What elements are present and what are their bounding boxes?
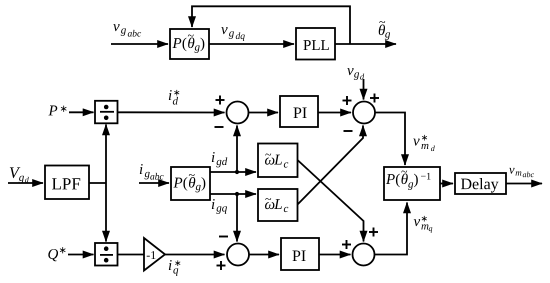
svg-text:q: q: [173, 264, 179, 276]
svg-text:): ): [413, 172, 418, 188]
svg-text:PI: PI: [292, 248, 306, 265]
svg-text:L: L: [273, 197, 282, 213]
svg-text:g: g: [121, 24, 127, 36]
svg-text:v: v: [221, 22, 228, 38]
svg-text:abc: abc: [522, 170, 534, 179]
svg-text:gd: gd: [216, 156, 228, 168]
svg-text:Q: Q: [47, 247, 58, 263]
svg-text:gq: gq: [216, 202, 228, 214]
svg-text:): ): [200, 36, 205, 52]
svg-text:(: (: [395, 172, 400, 188]
svg-text:): ): [201, 175, 206, 191]
svg-text:d: d: [360, 72, 365, 82]
svg-text:(: (: [182, 36, 187, 52]
svg-text:v: v: [413, 134, 420, 150]
svg-text:m: m: [515, 168, 522, 178]
svg-text:m: m: [421, 140, 429, 152]
svg-text:i: i: [139, 162, 143, 178]
svg-text:-1: -1: [146, 248, 156, 262]
svg-text:g: g: [385, 29, 391, 41]
svg-text:c: c: [283, 159, 288, 171]
svg-text:abc: abc: [128, 29, 143, 39]
svg-text:P: P: [172, 175, 182, 191]
svg-text:∗: ∗: [60, 104, 68, 115]
svg-text:i: i: [211, 197, 215, 213]
svg-text:P: P: [172, 36, 182, 52]
svg-text:dq: dq: [236, 32, 246, 42]
svg-text:Delay: Delay: [460, 176, 498, 193]
svg-text:P: P: [48, 103, 58, 119]
svg-text:PLL: PLL: [303, 38, 330, 54]
svg-text:q: q: [428, 224, 432, 233]
svg-text:LPF: LPF: [51, 174, 80, 193]
svg-text:d: d: [431, 144, 436, 153]
svg-text:v: v: [413, 214, 420, 230]
svg-text:g: g: [229, 27, 235, 39]
svg-text:−1: −1: [420, 172, 431, 183]
svg-text:∗: ∗: [58, 245, 66, 256]
svg-text:v: v: [113, 19, 120, 35]
svg-text:v: v: [509, 163, 515, 177]
svg-text:abc: abc: [150, 172, 165, 182]
svg-text:d: d: [173, 95, 179, 107]
svg-text:L: L: [273, 152, 282, 168]
svg-text:c: c: [283, 203, 288, 215]
svg-text:P: P: [385, 172, 395, 188]
svg-text:(: (: [183, 175, 188, 191]
svg-text:i: i: [168, 258, 172, 274]
svg-text:PI: PI: [293, 105, 307, 122]
svg-text:i: i: [211, 150, 215, 166]
